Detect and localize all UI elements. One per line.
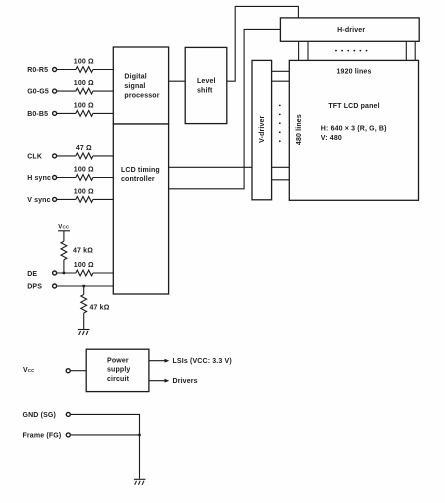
node R0-R5 xyxy=(27,59,113,74)
resistor R1 100 ohm xyxy=(76,67,93,73)
wire DPS to timing controller xyxy=(57,285,113,287)
block Power supply circuit xyxy=(86,349,149,391)
wire Frame to GND net xyxy=(71,434,140,436)
svg-text:100 Ω: 100 Ω xyxy=(74,167,94,174)
svg-text:signal: signal xyxy=(124,83,145,90)
svg-text:100 Ω: 100 Ω xyxy=(74,262,94,269)
svg-text:Frame (FG): Frame (FG) xyxy=(23,432,62,439)
block U2 LCD timing controller xyxy=(113,124,168,294)
bus V-driver to panel lower xyxy=(272,167,290,180)
node DE xyxy=(27,262,113,278)
block U4 H-driver xyxy=(280,18,419,41)
resistor R4 47 ohm xyxy=(76,153,93,159)
node G0-G5 xyxy=(27,80,113,95)
resistor R8 100 ohm xyxy=(76,270,93,276)
junction DE pull-up xyxy=(63,272,65,274)
svg-text:processor: processor xyxy=(124,92,159,99)
svg-text:CLK: CLK xyxy=(27,153,42,160)
terminal H sync xyxy=(53,176,57,180)
svg-text:480 lines: 480 lines xyxy=(296,114,303,145)
svg-text:circuit: circuit xyxy=(107,376,130,383)
svg-text:TFT LCD panel: TFT LCD panel xyxy=(328,103,379,110)
resistor R5 100 ohm xyxy=(76,175,93,181)
svg-text:1920 lines: 1920 lines xyxy=(337,68,372,75)
svg-text:100 Ω: 100 Ω xyxy=(74,80,94,87)
power Vcc symbol (pull-up) xyxy=(58,225,70,242)
svg-text:V-driver: V-driver xyxy=(259,115,266,142)
svg-text:CC: CC xyxy=(28,368,35,373)
resistor R2 100 ohm xyxy=(76,88,93,94)
wire R8 to timing controller xyxy=(93,272,113,274)
wire terminal to R3 xyxy=(57,112,76,114)
svg-text:H: 640 × 3 (R, G, B): H: 640 × 3 (R, G, B) xyxy=(321,126,387,133)
resistor R7 47 kohm pull-up xyxy=(61,241,93,273)
svg-text:47 Ω: 47 Ω xyxy=(76,145,92,152)
terminal DPS xyxy=(53,284,57,288)
svg-text:R0-R5: R0-R5 xyxy=(27,67,48,74)
terminal CLK xyxy=(53,154,57,158)
svg-text:H sync: H sync xyxy=(27,175,51,182)
wire Level shift to H-driver top xyxy=(227,6,299,81)
svg-text:47 kΩ: 47 kΩ xyxy=(90,305,110,312)
node B0-B5 xyxy=(27,103,113,118)
svg-text:100 Ω: 100 Ω xyxy=(74,189,94,196)
node DPS xyxy=(27,283,113,290)
terminal Frame (FG) xyxy=(66,433,70,437)
wire R6 to timing controller xyxy=(93,198,113,200)
arrow output LSIs xyxy=(149,358,232,365)
node V sync xyxy=(27,189,113,204)
node H sync xyxy=(27,167,113,182)
bus H-driver to panel right xyxy=(406,41,415,60)
wire GND to ground xyxy=(71,414,140,478)
wire R5 to timing controller xyxy=(93,177,113,179)
terminal Vcc xyxy=(66,369,70,373)
svg-text:DPS: DPS xyxy=(27,283,42,290)
wire R9 to ground xyxy=(83,313,85,329)
wire terminal to R8 xyxy=(57,272,76,274)
svg-text:100 Ω: 100 Ω xyxy=(74,103,94,110)
svg-text:CC: CC xyxy=(63,225,70,230)
wire terminal to R4 xyxy=(57,155,76,157)
svg-text:Digital: Digital xyxy=(124,74,146,81)
svg-text:H-driver: H-driver xyxy=(337,27,365,34)
wire R1 to DSP xyxy=(93,69,113,71)
svg-text:GND (SG): GND (SG) xyxy=(23,412,56,419)
terminal G0-G5 xyxy=(53,89,57,93)
svg-text:V: 480: V: 480 xyxy=(321,135,342,142)
arrow output Drivers xyxy=(149,378,198,385)
terminal R0-R5 xyxy=(53,68,57,72)
wire R4 to timing controller xyxy=(93,155,113,157)
svg-text:G0-G5: G0-G5 xyxy=(27,89,49,96)
resistor R6 100 ohm xyxy=(76,197,93,203)
wire terminal to R1 xyxy=(57,69,76,71)
terminal DE xyxy=(53,271,57,275)
svg-text:V sync: V sync xyxy=(27,197,50,204)
node Frame (FG) xyxy=(23,432,141,439)
terminal V sync xyxy=(53,197,57,201)
wire Vcc to R7 xyxy=(63,231,65,241)
wire Vcc to power supply xyxy=(71,370,87,372)
wire timing controller to V-driver xyxy=(169,166,252,168)
bus V-driver to panel upper xyxy=(272,71,290,81)
ellipsis dots H-driver to panel xyxy=(335,50,367,52)
block U1 Digital signal processor xyxy=(113,47,168,124)
svg-text:supply: supply xyxy=(107,367,130,374)
svg-text:Power: Power xyxy=(107,358,129,365)
ellipsis dots V-driver to panel xyxy=(279,105,281,143)
wire terminal to R6 xyxy=(57,198,76,200)
wire R3 to DSP xyxy=(93,112,113,114)
wire timing controller to H-driver left xyxy=(169,29,281,188)
svg-text:LCD timing: LCD timing xyxy=(121,167,160,174)
junction Frame-GND xyxy=(138,434,140,436)
resistor R9 47 kohm pull-down xyxy=(81,286,110,330)
svg-text:LSIs (VCC: 3.3 V): LSIs (VCC: 3.3 V) xyxy=(173,358,232,365)
wire R2 to DSP xyxy=(93,90,113,92)
svg-text:100 Ω: 100 Ω xyxy=(74,59,94,66)
junction DPS pull-down xyxy=(83,285,85,287)
svg-text:controller: controller xyxy=(121,176,155,183)
terminal B0-B5 xyxy=(53,111,57,115)
block U3 Level shift xyxy=(185,47,227,123)
svg-text:B0-B5: B0-B5 xyxy=(27,111,48,118)
wire terminal to R5 xyxy=(57,177,76,179)
wire R7 to DE net xyxy=(63,260,65,273)
svg-text:DE: DE xyxy=(27,271,37,278)
wire terminal to R2 xyxy=(57,90,76,92)
svg-text:shift: shift xyxy=(197,87,213,94)
block TFT LCD panel xyxy=(289,60,418,200)
resistor R3 100 ohm xyxy=(76,111,93,117)
bus H-driver to panel left xyxy=(299,41,308,60)
svg-text:Level: Level xyxy=(197,78,216,85)
svg-text:47 kΩ: 47 kΩ xyxy=(73,247,93,254)
ground (pull-down) xyxy=(78,330,90,336)
block U5 V-driver xyxy=(252,60,272,199)
ground (bottom) xyxy=(134,479,146,485)
node GND (SG) xyxy=(23,412,140,479)
svg-text:Drivers: Drivers xyxy=(173,378,198,385)
terminal GND (SG) xyxy=(66,412,70,416)
node CLK xyxy=(27,145,113,160)
node Vcc power input xyxy=(23,367,86,374)
wire DSP to Level shift xyxy=(169,80,186,82)
